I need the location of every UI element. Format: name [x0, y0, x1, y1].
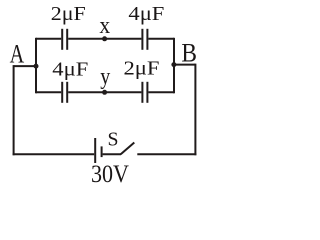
wire left outer vertical [13, 65, 15, 155]
wire battery to switch [103, 153, 121, 155]
node B junction dot [171, 62, 176, 67]
capacitor C2 4uF left plate [141, 29, 143, 50]
svg-text:y: y [100, 64, 110, 90]
wire middle branch middle segment [68, 91, 141, 93]
wire right inner vertical [173, 38, 175, 94]
node x junction dot [102, 36, 107, 41]
capacitor C1 2uF left plate [61, 29, 63, 50]
battery short plate [101, 146, 103, 157]
wire left inner vertical [35, 38, 37, 94]
capacitor C1 2uF right plate [66, 29, 68, 50]
svg-text:2μF: 2μF [51, 3, 86, 25]
wire middle branch right segment [148, 91, 174, 93]
capacitor C3 4uF left plate [61, 82, 63, 103]
svg-text:4μF: 4μF [52, 59, 88, 81]
switch S lever [121, 143, 135, 155]
wire top branch right segment [148, 38, 174, 40]
node y junction dot [102, 90, 107, 95]
wire switch to right [137, 153, 196, 155]
wire middle branch left segment [36, 91, 61, 93]
capacitor C2 4uF right plate [146, 29, 148, 50]
node A junction dot [34, 64, 39, 69]
svg-text:A: A [10, 39, 25, 68]
battery long plate [94, 138, 96, 163]
svg-text:30V: 30V [91, 161, 129, 188]
capacitor C4 2uF right plate [146, 82, 148, 103]
svg-text:2μF: 2μF [124, 58, 160, 80]
capacitor C3 4uF right plate [66, 82, 68, 103]
wire top branch left segment [36, 38, 61, 40]
wire right outer vertical [194, 64, 196, 156]
capacitor C4 2uF left plate [141, 82, 143, 103]
wire bottom left segment [13, 153, 95, 155]
wire top branch middle segment [68, 38, 141, 40]
svg-text:x: x [99, 13, 110, 39]
wire node A stub [14, 65, 36, 67]
svg-text:4μF: 4μF [128, 3, 164, 25]
svg-text:S: S [108, 129, 119, 151]
svg-text:B: B [181, 39, 197, 68]
wire node B stub [174, 64, 195, 66]
